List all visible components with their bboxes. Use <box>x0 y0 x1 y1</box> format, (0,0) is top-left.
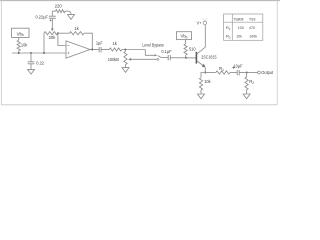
terminal Output <box>247 72 258 74</box>
node level pot top <box>124 49 126 51</box>
power port V+ <box>203 21 207 25</box>
svg-text:220: 220 <box>55 4 63 9</box>
ground (rail cap) <box>30 64 32 70</box>
svg-text:100kB: 100kB <box>108 57 119 62</box>
net label Vb (right) <box>177 32 192 40</box>
svg-text:TS9: TS9 <box>249 17 255 21</box>
svg-text:Vbb: Vbb <box>17 31 24 37</box>
resistor R2 <box>246 73 248 78</box>
wire cap to out node <box>239 72 247 74</box>
wiper arrow level pot <box>128 58 131 61</box>
svg-text:2SC1815: 2SC1815 <box>201 54 217 59</box>
node rail-20k <box>43 52 45 54</box>
svg-text:0.1µF: 0.1µF <box>161 49 172 54</box>
resistor R out 1k <box>101 49 109 51</box>
svg-text:510: 510 <box>189 46 196 51</box>
resistor R feedback 1k <box>58 32 70 34</box>
svg-text:Vbb: Vbb <box>181 34 188 40</box>
svg-text:TS808: TS808 <box>233 17 243 21</box>
resistor R1 <box>205 72 216 74</box>
svg-text:100: 100 <box>238 26 244 30</box>
wire 20k to op-amp inverting input <box>58 33 66 45</box>
svg-text:10k: 10k <box>21 42 28 47</box>
resistor R bias 10k <box>18 38 20 41</box>
svg-text:R1: R1 <box>226 25 231 31</box>
svg-text:10k: 10k <box>204 79 211 84</box>
node output <box>246 72 248 74</box>
svg-text:0.22µF: 0.22µF <box>36 14 49 19</box>
capacitor C output 10uF <box>236 70 238 75</box>
resistor R tone 220 <box>52 10 55 12</box>
node emitter <box>204 72 206 74</box>
wire tone wiper <box>51 18 53 29</box>
ground (level pot) <box>125 65 127 68</box>
potentiometer VR level 100kB <box>125 50 127 52</box>
op-amp U1 <box>66 41 90 58</box>
resistor R emitter 10k <box>201 73 205 78</box>
wire op-amp output <box>90 49 99 51</box>
resistor R base 510 <box>185 40 187 44</box>
wire emitter <box>204 67 206 72</box>
node base bias <box>185 57 187 59</box>
potentiometer VR tone 20k <box>44 32 58 35</box>
svg-text:V+: V+ <box>197 20 203 25</box>
svg-text:0.22: 0.22 <box>36 60 44 65</box>
wire bypass throw <box>145 50 154 56</box>
svg-text:10µF: 10µF <box>233 63 243 68</box>
svg-text:R2: R2 <box>249 79 254 85</box>
capacitor C couple 0.1uF <box>167 55 169 60</box>
wire cap to base <box>170 57 196 59</box>
switch SW bypass/level <box>155 54 158 56</box>
table TS808/TS9 values <box>224 14 263 40</box>
svg-text:R2: R2 <box>226 34 231 40</box>
svg-text:470: 470 <box>249 26 255 30</box>
svg-text:1k: 1k <box>112 41 117 46</box>
svg-text:R1: R1 <box>219 66 224 72</box>
wire rail to op-amp noninverting input <box>12 52 66 54</box>
svg-text:1k: 1k <box>74 26 79 31</box>
net label Vb (left) <box>12 28 30 37</box>
svg-text:10k: 10k <box>236 35 242 39</box>
node rail-cap <box>30 52 32 54</box>
border frame <box>0 0 280 2</box>
capacitor C rail 0.22 <box>30 53 32 62</box>
svg-text:100k: 100k <box>249 35 257 39</box>
wire 20k left to rail <box>43 33 45 53</box>
wire switch pole <box>161 57 168 59</box>
capacitor C tone 0.22uF <box>51 11 53 16</box>
svg-text:20k: 20k <box>49 35 57 40</box>
svg-text:Output: Output <box>261 70 274 75</box>
transistor Q1 2SC1815 <box>195 52 197 64</box>
wiper arrow onto tone pot <box>51 29 54 32</box>
node rail-10k <box>18 52 20 54</box>
capacitor C out 1uF <box>98 47 100 52</box>
node op-amp output <box>91 49 93 51</box>
node 20k right <box>57 32 59 34</box>
svg-text:Level Bypass: Level Bypass <box>142 42 163 47</box>
wire collector <box>204 25 206 48</box>
ground (emitter) <box>198 94 205 99</box>
svg-text:1µF: 1µF <box>96 41 103 46</box>
ground (tone 220) <box>68 11 71 14</box>
ground (R2) <box>243 94 250 99</box>
